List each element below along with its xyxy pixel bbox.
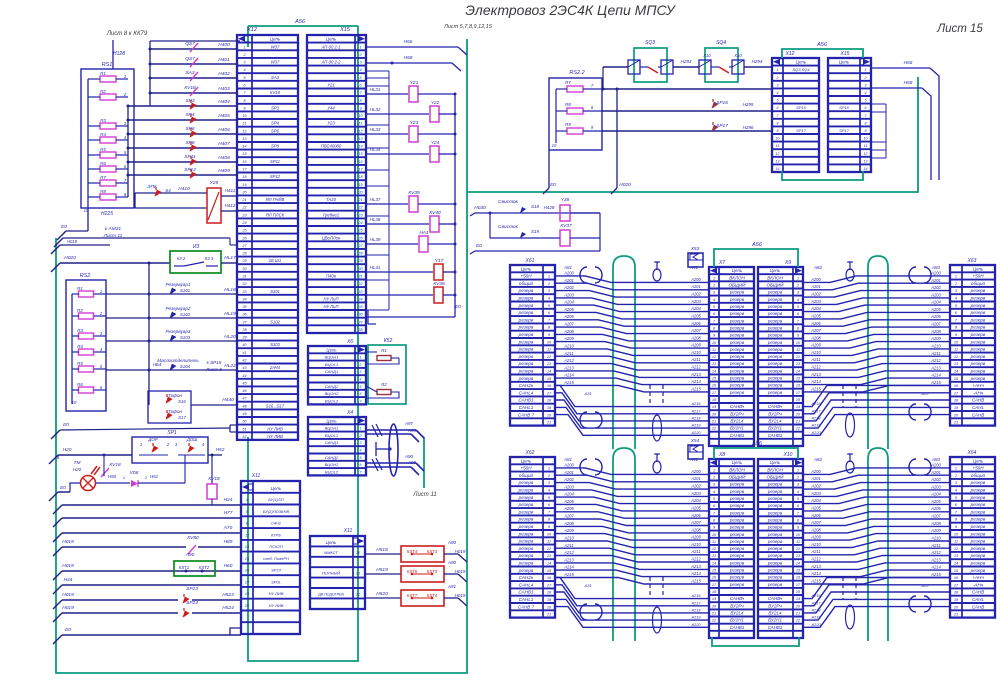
svg-text:S102: S102 <box>180 312 191 317</box>
svg-text:А200: А200 <box>563 270 574 275</box>
svg-text:Электровоз 2ЭС4К Цепи МПСУ: Электровоз 2ЭС4К Цепи МПСУ <box>465 2 677 18</box>
svg-text:А206: А206 <box>690 513 701 518</box>
svg-text:резерв: резерв <box>729 482 745 487</box>
svg-text:А209: А209 <box>810 343 821 348</box>
svg-text:Лист 15: Лист 15 <box>936 23 983 35</box>
svg-text:резерв: резерв <box>729 510 745 515</box>
svg-text:ВКЛОН: ВКЛОН <box>767 275 783 280</box>
svg-text:резерв: резерв <box>970 332 986 337</box>
svg-text:10: 10 <box>776 137 780 141</box>
svg-text:Н404: Н404 <box>218 99 230 105</box>
svg-text:Цепь: Цепь <box>270 37 281 42</box>
svg-text:БУ(1)SП: БУ(1)SП <box>268 497 283 502</box>
svg-text:11: 11 <box>954 347 958 352</box>
svg-text:Цепь: Цепь <box>326 37 337 42</box>
svg-text:Н019: Н019 <box>62 605 74 611</box>
svg-text:резерв: резерв <box>518 369 534 374</box>
svg-text:А201: А201 <box>930 470 941 475</box>
svg-text:ПВС40080: ПВС40080 <box>321 144 342 149</box>
svg-text:22: 22 <box>711 426 717 431</box>
svg-text:А81: А81 <box>563 265 573 270</box>
svg-text:САЧ1: САЧ1 <box>271 521 281 526</box>
svg-text:резерв: резерв <box>970 369 986 374</box>
svg-text:ВЦОН1: ВЦОН1 <box>325 426 339 431</box>
svg-text:А206: А206 <box>563 506 574 511</box>
svg-text:20: 20 <box>546 604 552 609</box>
svg-text:А208: А208 <box>810 335 821 340</box>
svg-text:VD8: VD8 <box>130 470 139 475</box>
svg-text:1: 1 <box>124 74 126 79</box>
svg-text:МИКСТ: МИКСТ <box>324 550 338 555</box>
svg-text:ВЦОН2: ВЦОН2 <box>325 391 340 396</box>
svg-text:S17: S17 <box>178 415 186 420</box>
svg-text:А81: А81 <box>563 457 573 462</box>
svg-text:Тифон: Тифон <box>168 393 182 398</box>
svg-text:1: 1 <box>797 467 799 472</box>
svg-text:А215: А215 <box>563 380 574 385</box>
svg-text:резерв: резерв <box>767 290 783 295</box>
svg-text:ДОШ: ДОШ <box>186 437 197 442</box>
svg-text:ВЦОL1: ВЦОL1 <box>325 433 338 438</box>
svg-text:САН2н: САН2н <box>519 383 534 388</box>
svg-text:ВУ2Н1: ВУ2Н1 <box>730 618 744 623</box>
svg-text:А211: А211 <box>690 549 700 554</box>
svg-text:Маслоотделитель: Маслоотделитель <box>157 358 199 363</box>
svg-text:-АНч: -АНч <box>973 390 984 395</box>
svg-text:21: 21 <box>795 419 800 424</box>
svg-text:4: 4 <box>359 68 361 72</box>
svg-text:20: 20 <box>795 603 801 608</box>
svg-text:28: 28 <box>357 252 363 256</box>
svg-text:А205: А205 <box>563 307 574 312</box>
svg-text:25: 25 <box>241 229 247 233</box>
svg-text:2: 2 <box>864 76 867 80</box>
svg-text:А205: А205 <box>930 499 941 504</box>
svg-text:5: 5 <box>777 99 779 103</box>
svg-text:А208: А208 <box>563 329 574 334</box>
svg-text:У23: У23 <box>327 121 335 126</box>
svg-text:А204: А204 <box>930 300 941 305</box>
svg-text:резерв: резерв <box>518 495 534 500</box>
svg-text:RS1: RS1 <box>102 62 113 68</box>
svg-text:SP4: SP4 <box>271 121 280 126</box>
svg-text:А201: А201 <box>563 470 574 475</box>
svg-text:А213: А213 <box>810 372 821 377</box>
svg-text:резерв: резерв <box>970 347 986 352</box>
svg-text:НУ ЛИВ: НУ ЛИВ <box>269 603 284 608</box>
svg-text:резерв: резерв <box>518 332 534 337</box>
svg-text:резерв: резерв <box>970 539 986 544</box>
svg-text:Х4: Х4 <box>346 410 353 416</box>
svg-text:А217: А217 <box>810 408 821 413</box>
svg-text:А211: А211 <box>563 351 573 356</box>
svg-text:Н51: Н51 <box>150 474 159 479</box>
svg-text:резерв: резерв <box>518 539 534 544</box>
svg-text:SР17: SР17 <box>839 128 850 133</box>
svg-text:14: 14 <box>242 145 246 149</box>
svg-text:А211: А211 <box>563 543 573 548</box>
svg-text:ЯЛ ПЛСК: ЯЛ ПЛСК <box>265 212 285 217</box>
svg-text:А200: А200 <box>810 277 821 282</box>
svg-text:А202: А202 <box>810 484 821 489</box>
svg-text:ВЦОL2: ВЦОL2 <box>325 469 339 474</box>
svg-text:А210: А210 <box>563 536 574 541</box>
svg-text:резерв: резерв <box>767 311 783 316</box>
svg-text:А212: А212 <box>690 365 701 370</box>
svg-text:Цепь: Цепь <box>770 268 781 273</box>
svg-text:Н128: Н128 <box>113 51 125 57</box>
svg-text:САНL1: САНL1 <box>519 597 534 602</box>
svg-text:А214: А214 <box>810 379 821 384</box>
svg-text:резерв: резерв <box>767 318 783 323</box>
svg-text:41: 41 <box>242 351 246 355</box>
svg-text:SP6: SP6 <box>271 128 280 133</box>
svg-text:КV40: КV40 <box>429 210 441 216</box>
svg-text:резерв: резерв <box>729 517 745 522</box>
svg-text:44: 44 <box>242 374 246 378</box>
svg-text:Н019: Н019 <box>62 539 74 545</box>
svg-text:А205: А205 <box>810 505 821 510</box>
svg-text:резерв: резерв <box>729 503 745 508</box>
svg-text:А83: А83 <box>931 457 941 462</box>
svg-text:2АЧ4: 2АЧ4 <box>269 365 281 370</box>
svg-text:10: 10 <box>552 143 557 148</box>
svg-text:А211: А211 <box>690 357 700 362</box>
svg-text:А203: А203 <box>690 299 701 304</box>
svg-text:4: 4 <box>777 91 779 95</box>
svg-text:8: 8 <box>865 121 867 125</box>
svg-text:А213: А213 <box>810 564 821 569</box>
svg-text:резерв: резерв <box>767 568 783 573</box>
svg-text:А219: А219 <box>810 615 821 620</box>
svg-text:ВКЛОН: ВКЛОН <box>729 467 745 472</box>
svg-text:А213: А213 <box>690 372 701 377</box>
svg-text:А204: А204 <box>563 492 574 497</box>
svg-text:А211: А211 <box>930 543 940 548</box>
svg-text:1: 1 <box>955 274 957 279</box>
svg-text:Н20: Н20 <box>73 467 82 472</box>
svg-text:21: 21 <box>546 612 551 617</box>
svg-text:Х7: Х7 <box>718 260 725 266</box>
svg-text:Цепь: Цепь <box>326 540 337 545</box>
svg-text:21: 21 <box>795 611 800 616</box>
svg-text:Х10: Х10 <box>783 452 793 458</box>
svg-text:А82: А82 <box>813 265 823 270</box>
svg-text:А217: А217 <box>690 600 701 605</box>
svg-text:+АНч: +АНч <box>972 383 984 388</box>
svg-text:20: 20 <box>953 604 959 609</box>
svg-text:А218: А218 <box>690 607 701 612</box>
svg-text:Х11: Х11 <box>343 528 353 534</box>
svg-text:20: 20 <box>355 551 361 555</box>
svg-text:резерв: резерв <box>970 546 986 551</box>
svg-text:А212: А212 <box>930 358 941 363</box>
svg-text:А220: А220 <box>810 622 821 627</box>
svg-text:Цепь: Цепь <box>271 486 282 491</box>
svg-text:Цепь: Цепь <box>796 60 807 65</box>
svg-text:КV18: КV18 <box>208 476 220 482</box>
svg-text:+50Н: +50Н <box>520 274 532 279</box>
svg-text:Х54: Х54 <box>690 438 700 444</box>
svg-text:САНВ: САНВ <box>972 604 985 609</box>
svg-text:А56: А56 <box>816 42 828 48</box>
svg-text:2: 2 <box>359 363 362 367</box>
svg-text:НL39: НL39 <box>370 237 381 242</box>
svg-text:А201: А201 <box>810 476 821 481</box>
svg-text:Н52: Н52 <box>216 447 225 453</box>
svg-text:Н412: Н412 <box>225 203 236 208</box>
svg-text:резерв: резерв <box>729 582 745 587</box>
svg-text:резерв: резерв <box>767 496 783 501</box>
svg-text:22: 22 <box>355 592 361 596</box>
svg-text:14: 14 <box>245 544 250 549</box>
svg-text:НL20: НL20 <box>224 334 236 340</box>
svg-text:+50Н: +50Н <box>972 274 984 279</box>
svg-text:26: 26 <box>357 236 363 240</box>
svg-text:Y38: Y38 <box>561 197 570 203</box>
svg-text:Н50: Н50 <box>108 474 117 479</box>
svg-text:А207: А207 <box>690 520 701 525</box>
svg-text:А25: А25 <box>921 391 930 396</box>
svg-text:А218: А218 <box>690 415 701 420</box>
svg-text:Цепь: Цепь <box>732 460 743 465</box>
svg-text:SP4: SP4 <box>185 112 194 118</box>
svg-text:12: 12 <box>864 152 868 156</box>
svg-text:ЯЛ ПЧЙВ: ЯЛ ПЧЙВ <box>265 197 285 202</box>
svg-text:Цепь: Цепь <box>326 418 337 423</box>
svg-text:ВУ2L4: ВУ2L4 <box>730 611 744 616</box>
svg-text:ВУ2L4: ВУ2L4 <box>730 419 744 424</box>
svg-text:21: 21 <box>355 572 360 576</box>
svg-text:1: 1 <box>548 274 550 279</box>
svg-text:4: 4 <box>360 449 362 453</box>
svg-text:ОБЩИЙ: ОБЩИЙ <box>728 281 746 288</box>
svg-text:4: 4 <box>865 91 867 95</box>
svg-text:SР23: SР23 <box>271 568 282 573</box>
svg-text:Х63: Х63 <box>967 258 977 264</box>
svg-text:А25: А25 <box>584 583 593 588</box>
svg-text:резерв: резерв <box>767 575 783 580</box>
svg-text:АП-00 2-1: АП-00 2-1 <box>321 44 341 49</box>
svg-text:резерв: резерв <box>729 539 745 544</box>
svg-text:3: 3 <box>777 83 779 87</box>
svg-text:резерв: резерв <box>767 361 783 366</box>
svg-text:САНВ 7: САНВ 7 <box>518 412 535 417</box>
svg-text:13: 13 <box>864 159 868 163</box>
svg-text:S16: S16 <box>178 399 186 404</box>
svg-text:САНВ1: САНВ1 <box>768 625 783 630</box>
svg-text:А214: А214 <box>563 565 574 570</box>
svg-text:Х53: Х53 <box>690 246 700 252</box>
svg-text:резерв: резерв <box>767 517 783 522</box>
svg-text:R1: R1 <box>77 286 83 291</box>
svg-text:S102: S102 <box>270 319 280 324</box>
svg-text:А209: А209 <box>690 343 701 348</box>
svg-text:11: 11 <box>712 539 716 544</box>
svg-text:КV80: КV80 <box>187 535 199 541</box>
svg-text:А214: А214 <box>563 373 574 378</box>
svg-text:Лист 8 к КК79: Лист 8 к КК79 <box>106 31 148 37</box>
svg-text:5: 5 <box>360 456 362 460</box>
svg-text:Н400: Н400 <box>218 42 230 48</box>
svg-text:ВУ2Рч: ВУ2Рч <box>730 603 744 608</box>
svg-text:А208: А208 <box>930 521 941 526</box>
svg-text:Х64: Х64 <box>967 450 977 456</box>
svg-text:Цепь: Цепь <box>839 60 850 65</box>
svg-text:резерв: резерв <box>767 546 783 551</box>
svg-text:А209: А209 <box>690 535 701 540</box>
svg-text:общий: общий <box>519 280 534 286</box>
svg-text:ВЦОН2: ВЦОН2 <box>325 462 340 467</box>
svg-text:Н402: Н402 <box>218 71 230 77</box>
svg-text:А200: А200 <box>930 270 941 275</box>
svg-text:S103: S103 <box>180 335 191 340</box>
svg-text:резерв: резерв <box>729 532 745 537</box>
svg-text:КST2: КST2 <box>199 565 210 570</box>
svg-text:САНВ: САНВ <box>972 412 985 417</box>
svg-text:А208: А208 <box>810 527 821 532</box>
svg-text:А219: А219 <box>690 615 701 620</box>
svg-text:R9: R9 <box>565 122 571 127</box>
svg-text:24: 24 <box>241 221 246 225</box>
svg-text:резерв: резерв <box>970 531 986 536</box>
svg-text:Н019: Н019 <box>67 239 78 244</box>
svg-text:11: 11 <box>243 122 247 126</box>
svg-text:14: 14 <box>864 167 868 171</box>
svg-text:SР23: SР23 <box>186 586 198 592</box>
svg-text:SР16: SР16 <box>839 105 850 110</box>
svg-text:ВУ2Рч: ВУ2Рч <box>768 411 782 416</box>
svg-text:ВУ2Н1: ВУ2Н1 <box>768 426 782 431</box>
svg-text:А212: А212 <box>563 550 574 555</box>
svg-text:А204: А204 <box>690 306 701 311</box>
svg-text:резерв: резерв <box>970 376 986 381</box>
svg-text:27: 27 <box>357 244 363 248</box>
svg-text:резерв: резерв <box>767 325 783 330</box>
svg-text:А204: А204 <box>810 306 821 311</box>
svg-text:16: 16 <box>245 568 250 573</box>
svg-text:САНВ1: САНВ1 <box>768 433 783 438</box>
svg-text:21: 21 <box>711 419 716 424</box>
svg-text:САНВч: САНВч <box>768 404 783 409</box>
svg-text:А212: А212 <box>810 557 821 562</box>
svg-text:К52: К52 <box>384 338 393 344</box>
svg-text:А214: А214 <box>930 373 941 378</box>
svg-text:3: 3 <box>360 441 362 445</box>
svg-text:А70: А70 <box>223 525 233 531</box>
svg-text:SP8: SP8 <box>185 140 194 146</box>
svg-text:САНВ1: САНВ1 <box>518 590 534 595</box>
svg-text:4: 4 <box>243 68 245 72</box>
svg-text:резерв: резерв <box>518 531 534 536</box>
svg-text:САНВ 7: САНВ 7 <box>518 604 535 609</box>
svg-text:34: 34 <box>358 297 362 301</box>
svg-text:Х6: Х6 <box>346 339 353 345</box>
svg-text:R6: R6 <box>100 161 106 166</box>
svg-text:Н77: Н77 <box>224 510 233 516</box>
svg-text:А212: А212 <box>563 358 574 363</box>
svg-text:резерв: резерв <box>518 488 534 493</box>
svg-text:2: 2 <box>359 434 362 438</box>
svg-text:КV18: КV18 <box>184 85 196 91</box>
svg-text:ОБЩИЙ: ОБЩИЙ <box>766 281 784 288</box>
svg-text:резерв: резерв <box>970 310 986 315</box>
svg-text:резерв: резерв <box>729 575 745 580</box>
svg-text:А218: А218 <box>810 415 821 420</box>
svg-text:20: 20 <box>546 412 552 417</box>
svg-text:Цепь: Цепь <box>521 458 532 463</box>
svg-text:А210: А210 <box>690 350 701 355</box>
svg-text:резерв: резерв <box>767 553 783 558</box>
svg-text:S18: S18 <box>531 204 540 209</box>
svg-text:Цепь: Цепь <box>770 460 781 465</box>
svg-text:ВУ2Н1: ВУ2Н1 <box>768 618 782 623</box>
svg-text:САНВ1: САНВ1 <box>730 625 745 630</box>
svg-text:31: 31 <box>358 275 362 279</box>
svg-text:АП-00 2-2: АП-00 2-2 <box>321 60 342 65</box>
svg-text:НL17: НL17 <box>224 255 236 261</box>
svg-text:20: 20 <box>953 412 959 417</box>
svg-text:резерв: резерв <box>970 561 986 566</box>
svg-text:SР16: SР16 <box>716 100 728 106</box>
svg-text:резерв: резерв <box>518 568 534 573</box>
svg-text:21: 21 <box>711 611 716 616</box>
svg-text:14: 14 <box>358 145 362 149</box>
svg-text:15: 15 <box>245 556 250 561</box>
svg-text:1: 1 <box>100 289 102 294</box>
svg-text:Н524: Н524 <box>222 605 234 611</box>
svg-text:НУ ЛИВ: НУ ЛИВ <box>269 591 284 596</box>
svg-text:4: 4 <box>360 378 362 382</box>
svg-text:А206: А206 <box>930 314 941 319</box>
svg-text:САНL: САНL <box>972 405 985 410</box>
svg-text:А200: А200 <box>563 462 574 467</box>
svg-text:+АНч: +АНч <box>972 575 984 580</box>
svg-text:А207: А207 <box>690 328 701 333</box>
svg-text:А202: А202 <box>690 292 701 297</box>
svg-text:Н407: Н407 <box>218 141 230 147</box>
svg-text:КV37: КV37 <box>560 223 572 229</box>
svg-text:S4: S4 <box>165 188 171 193</box>
svg-text:-АНч: -АНч <box>973 582 984 587</box>
svg-text:резерв: резерв <box>729 297 745 302</box>
svg-text:1: 1 <box>548 466 550 471</box>
svg-text:SP8: SP8 <box>271 144 280 149</box>
svg-text:А210: А210 <box>810 542 821 547</box>
svg-text:И3: И3 <box>193 244 200 250</box>
svg-text:11: 11 <box>776 144 780 148</box>
svg-text:САНВ: САНВ <box>972 590 985 595</box>
svg-text:А209: А209 <box>563 528 574 533</box>
svg-text:А215: А215 <box>690 579 701 584</box>
svg-text:34: 34 <box>242 297 246 301</box>
svg-text:20: 20 <box>795 411 801 416</box>
svg-text:резерв: резерв <box>970 495 986 500</box>
svg-text:А213: А213 <box>563 365 574 370</box>
svg-text:SA3: SA3 <box>271 75 280 80</box>
svg-text:резерв: резерв <box>729 333 745 338</box>
svg-text:резерв: резерв <box>767 340 783 345</box>
svg-text:ОБЩИЙ: ОБЩИЙ <box>766 473 784 480</box>
svg-text:резерв: резерв <box>970 524 986 529</box>
svg-text:А210: А210 <box>930 536 941 541</box>
svg-text:Х61: Х61 <box>525 258 535 264</box>
svg-text:К3 2: К3 2 <box>177 256 186 261</box>
svg-text:резерв: резерв <box>970 509 986 514</box>
svg-text:1: 1 <box>713 275 715 280</box>
svg-text:Резервуар3: Резервуар3 <box>166 329 191 334</box>
svg-text:R1: R1 <box>381 348 387 353</box>
